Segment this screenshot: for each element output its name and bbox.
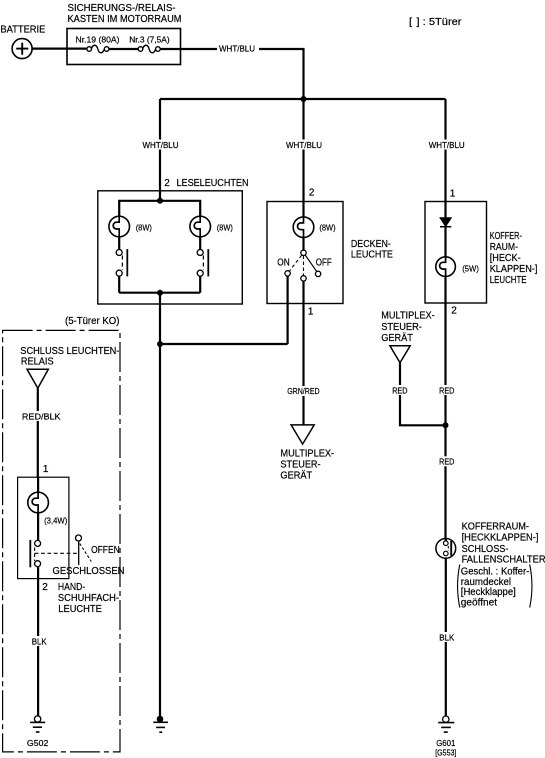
svg-text:Nr.19 (80A): Nr.19 (80A) — [76, 35, 120, 45]
junction dot internal bottom — [157, 290, 163, 296]
svg-text:KLAPPEN-]: KLAPPEN-] — [490, 264, 538, 275]
svg-text:RED: RED — [439, 385, 454, 395]
svg-text:1: 1 — [450, 188, 456, 199]
wire dome switch output down — [302, 281, 304, 425]
svg-text:MULTIPLEX-: MULTIPLEX- — [381, 311, 435, 322]
label: BLK (glovebox branch) — [30, 636, 54, 647]
svg-text:(5-Türer KO): (5-Türer KO) — [65, 316, 119, 327]
svg-text:MULTIPLEX-: MULTIPLEX- — [280, 448, 334, 459]
svg-text:(8W): (8W) — [217, 223, 233, 233]
wire fuse box to WHT/BLU label — [160, 48, 217, 50]
svg-text:(8W): (8W) — [136, 223, 152, 233]
junction dot at bus — [301, 96, 307, 102]
label: RED (trunk branch upper) — [438, 385, 457, 395]
junction dot internal top — [157, 198, 163, 204]
wire internal bottom bus of reading lights — [119, 292, 200, 294]
svg-text:ON: ON — [277, 257, 289, 268]
wire bulb to switch (left) — [118, 237, 120, 250]
svg-text:LESELEUCHTEN: LESELEUCHTEN — [177, 178, 249, 189]
wire internal top bus of reading lights — [119, 201, 200, 217]
svg-text:Nr.3 (7,5A): Nr.3 (7,5A) — [129, 35, 170, 45]
svg-text:LEUCHTE: LEUCHTE — [58, 604, 102, 615]
svg-text:SICHERUNGS-/RELAIS-: SICHERUNGS-/RELAIS- — [68, 3, 176, 14]
svg-text:RED: RED — [439, 457, 454, 467]
wire left branch from bus — [159, 99, 161, 201]
fuse F3 (7,5A) — [138, 45, 160, 53]
wire switch to bottom bus (right) — [199, 276, 201, 293]
wire trunk switch to ground — [445, 558, 447, 716]
label: MULTIPLEX-STEUER-GERAET (middle) — [280, 448, 334, 481]
label: RED (trunk branch lower) — [438, 456, 457, 466]
wire battery to fuse box — [32, 47, 87, 49]
diode D1 (trunk light) — [440, 218, 451, 227]
svg-text:1: 1 — [308, 306, 314, 317]
svg-text:GRN/RED: GRN/RED — [287, 386, 319, 396]
svg-text:[HECKKLAPPEN-]: [HECKKLAPPEN-] — [462, 533, 539, 544]
junction dot left branch / dome ON feed — [157, 341, 163, 347]
fuse F19 (80A) — [87, 45, 109, 53]
wire box top to bulb — [37, 477, 39, 492]
svg-text:STEUER-: STEUER- — [280, 460, 320, 471]
wire middle branch from bus — [302, 99, 304, 217]
svg-text:SCHLUSS LEUCHTEN-: SCHLUSS LEUCHTEN- — [20, 346, 119, 357]
svg-text:LEUCHTE: LEUCHTE — [490, 275, 527, 286]
wire diode to bulb — [444, 227, 446, 257]
svg-text:BLK: BLK — [439, 633, 454, 643]
label: WHT/BLU (middle branch) — [285, 140, 325, 151]
svg-text:SCHUHFACH-: SCHUHFACH- — [58, 593, 119, 604]
svg-text:BLK: BLK — [32, 637, 47, 647]
svg-text:Geschl. : Koffer-: Geschl. : Koffer- — [461, 567, 530, 578]
wire left branch down to ground — [159, 293, 161, 717]
svg-text:WHT/BLU: WHT/BLU — [143, 140, 179, 150]
label: RED (multiplex branch) — [391, 385, 410, 395]
svg-text:2: 2 — [164, 178, 170, 189]
svg-text:OFF: OFF — [316, 257, 332, 268]
label: fuse box title — [68, 3, 182, 25]
switch S3 (dome light switch) — [285, 250, 321, 281]
svg-text:(5W): (5W) — [462, 263, 479, 273]
svg-text:GESCHLOSSEN: GESCHLOSSEN — [53, 566, 125, 577]
svg-text:LEUCHTE: LEUCHTE — [351, 249, 393, 260]
svg-text:KOFFERRAUM-: KOFFERRAUM- — [462, 522, 529, 533]
label: KOFFERRAUM [HECKKLAPPEN] LEUCHTE — [490, 231, 538, 286]
wire bulb to switch pivot — [302, 238, 304, 251]
svg-text:DECKEN-: DECKEN- — [351, 239, 391, 250]
label: WHT/BLU (left branch) — [141, 140, 181, 151]
glovebox light box outline — [18, 477, 69, 578]
svg-text:KOFFER-: KOFFER- — [490, 231, 522, 242]
switch S2 (right reading light switch) — [197, 249, 208, 276]
wire WHT/BLU label to corner — [259, 49, 304, 99]
svg-text:G502: G502 — [27, 738, 49, 748]
svg-text:STEUER-: STEUER- — [381, 322, 422, 333]
svg-text:RELAIS: RELAIS — [21, 356, 54, 367]
bulb L1 (left reading light) — [109, 216, 130, 237]
svg-text:1: 1 — [43, 464, 49, 475]
reading lights box outline — [98, 191, 243, 304]
svg-text:(8W): (8W) — [319, 223, 335, 233]
label: 2 LESELEUCHTEN heading with pin 2 — [164, 178, 248, 189]
wire between fuses — [109, 48, 138, 50]
multiplex control unit connector (middle) — [291, 425, 314, 444]
svg-text:WHT/BLU: WHT/BLU — [219, 44, 255, 54]
label: G601 [G553] — [435, 738, 456, 758]
dome light box outline — [267, 202, 343, 304]
label: BLK (right branch) — [438, 632, 457, 643]
wire trunk bulb to box bottom and down — [444, 276, 446, 538]
wire right branch from bus — [444, 99, 446, 218]
ground (left branch, unlabeled) — [153, 716, 168, 732]
svg-text:[HECK-: [HECK- — [490, 253, 521, 264]
wire dome ON contact down — [287, 276, 289, 344]
svg-text:WHT/BLU: WHT/BLU — [286, 140, 322, 150]
label: DECKEN-LEUCHTE — [351, 239, 393, 261]
tail light relay connector triangle — [27, 369, 48, 388]
bulb L2 (right reading light) — [190, 216, 211, 237]
svg-text:2: 2 — [309, 188, 315, 199]
svg-text:FALLENSCHALTER: FALLENSCHALTER — [462, 554, 545, 565]
bulb L3 (dome light) — [293, 217, 314, 238]
svg-text:[G553]: [G553] — [435, 747, 456, 757]
svg-text:HAND-: HAND- — [58, 582, 85, 593]
battery B1 — [12, 39, 32, 59]
svg-text:RED: RED — [392, 385, 407, 395]
svg-text:(3,4W): (3,4W) — [44, 516, 67, 526]
dashed option box (5-Tuerer) — [3, 330, 120, 752]
ground G601 — [438, 716, 454, 732]
wire switch to bottom bus (left) — [118, 276, 120, 293]
svg-text:[ ] : 5Türer: [ ] : 5Türer — [409, 17, 462, 28]
label: KOFFERRAUM SCHLOSS-FALLENSCHALTER — [462, 522, 545, 566]
label: Geschl. note with big parentheses — [458, 565, 532, 609]
label: SCHLUSS LEUCHTEN-RELAIS — [20, 346, 119, 367]
svg-text:G601: G601 — [436, 738, 455, 748]
wire right multiplex down and to junction — [400, 363, 446, 426]
bulb L5 (glovebox light) — [28, 492, 49, 513]
wire glovebox switch to ground — [37, 567, 39, 717]
switch S5 (glovebox light switch) — [30, 535, 91, 567]
svg-text:BATTERIE: BATTERIE — [0, 24, 45, 35]
label: GRN/RED — [285, 386, 322, 396]
svg-text:SCHLOSS-: SCHLOSS- — [462, 544, 509, 555]
svg-text:2: 2 — [451, 306, 457, 317]
switch S1 (left reading light switch) — [116, 249, 127, 276]
switch S4 (trunk lid latch switch) — [436, 539, 456, 559]
ground G502 — [30, 716, 45, 732]
label: HAND-SCHUHFACH-LEUCHTE — [58, 582, 119, 615]
svg-text:GERÄT: GERÄT — [280, 470, 312, 482]
multiplex control unit connector (right) — [390, 346, 410, 363]
svg-text:WHT/BLU: WHT/BLU — [429, 140, 465, 150]
svg-text:OFFEN: OFFEN — [91, 545, 120, 556]
wire bus horizontal — [160, 98, 446, 100]
svg-text:geöffnet: geöffnet — [461, 597, 497, 608]
svg-text:2: 2 — [42, 582, 48, 593]
junction dot trunk/multiplex — [443, 422, 449, 428]
svg-text:KASTEN IM MOTORRAUM: KASTEN IM MOTORRAUM — [68, 14, 182, 25]
wire dome ON feed horizontal — [160, 343, 288, 345]
svg-text:GERÄT: GERÄT — [381, 332, 413, 344]
bulb L4 (trunk light) — [436, 257, 456, 277]
label: WHT/BLU (right branch) — [427, 140, 467, 151]
svg-text:RED/BLK: RED/BLK — [22, 412, 61, 422]
wire bulb to glovebox switch — [37, 513, 39, 541]
svg-text:RAUM-: RAUM- — [490, 242, 518, 253]
fuse box outline — [67, 29, 181, 65]
label: RED/BLK — [20, 411, 63, 422]
trunk light box outline — [425, 202, 487, 304]
wire relay to glovebox box — [37, 388, 39, 477]
wire bulb to switch (right) — [199, 237, 201, 250]
label: MULTIPLEX-STEUER-GERAET (right) — [381, 311, 435, 344]
